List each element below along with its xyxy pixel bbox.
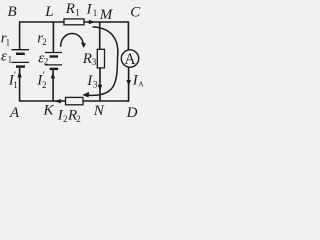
arrow IA down — [127, 80, 131, 86]
svg-text:D: D — [126, 105, 138, 121]
wire right C down to ammeter — [127, 21, 129, 50]
svg-text:N: N — [93, 103, 105, 119]
svg-text:2: 2 — [42, 80, 47, 90]
svg-text:2: 2 — [76, 114, 81, 124]
svg-text:1: 1 — [6, 37, 11, 47]
svg-text:1: 1 — [8, 55, 13, 65]
svg-text:C: C — [130, 4, 141, 20]
svg-text:K: K — [43, 103, 55, 119]
wire branch1 bottom (battery e1 to A) — [19, 68, 21, 101]
ammeter A circle — [121, 50, 138, 67]
svg-text:1: 1 — [75, 8, 80, 18]
svg-text:1: 1 — [93, 8, 98, 18]
wire branch2 bottom (battery e2 to K) — [52, 70, 54, 102]
svg-text:B: B — [8, 4, 17, 20]
svg-text:A: A — [124, 51, 136, 68]
svg-text:3: 3 — [92, 57, 97, 67]
svg-text:ε: ε — [1, 49, 7, 65]
svg-text:1: 1 — [13, 80, 18, 90]
battery cell e1 plates — [12, 50, 30, 67]
resistor R2 box — [66, 97, 84, 104]
svg-text:A: A — [138, 80, 144, 89]
wire top B-L-M-C — [20, 21, 129, 23]
svg-text:3: 3 — [93, 80, 98, 90]
svg-text:R: R — [82, 51, 92, 67]
wire ammeter down to D corner — [128, 67, 130, 102]
wire bottom A-K-N-D — [19, 100, 129, 102]
loop arrow right (big arc) — [89, 27, 118, 96]
arrow I2 left on bottom wire — [55, 99, 61, 103]
svg-text:A: A — [9, 105, 20, 121]
battery cell e2 plates — [45, 53, 62, 69]
svg-text:R: R — [65, 1, 75, 17]
arrow I1' up — [17, 71, 21, 77]
arrow I1 on top wire — [89, 20, 95, 24]
wire branch R3 top (M down) — [99, 22, 101, 50]
resistor R1 box — [64, 19, 84, 25]
resistor R3 box — [97, 49, 104, 68]
svg-text:L: L — [44, 4, 53, 20]
svg-text:2: 2 — [42, 37, 47, 47]
svg-text:2: 2 — [63, 114, 68, 124]
svg-text:M: M — [99, 7, 114, 23]
arrow I2' up — [51, 72, 55, 78]
wire branch1 top (B to battery e1) — [19, 21, 21, 49]
wire branch2 top (L to battery e2) — [52, 22, 54, 52]
arrow I3 down — [98, 85, 102, 91]
wire branch R3 bottom (to N) — [99, 68, 101, 102]
loop arrow left (small arc) — [61, 33, 84, 46]
svg-text:2: 2 — [44, 56, 49, 66]
svg-text:I: I — [86, 1, 93, 17]
